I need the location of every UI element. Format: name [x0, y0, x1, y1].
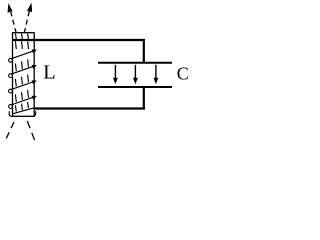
svg-text:C: C: [177, 63, 188, 83]
capacitor E-field arrow 1: [113, 65, 118, 84]
coil back-strand tick row 5: [15, 102, 28, 112]
coil winding last diagonal to bottom wire: [13, 108, 35, 114]
coil left-edge wire loop 4: [9, 105, 13, 109]
inductor L coil body (rectangle): [13, 33, 35, 117]
wire: right vertical upper segment: [143, 39, 145, 63]
coil left-edge wire loop 3: [9, 89, 13, 93]
coil winding diagonal turn 1 with arrow: [11, 50, 37, 59]
coil winding diagonal turn 4 with arrow: [11, 96, 37, 105]
capacitor C bottom plate: [98, 86, 172, 88]
capacitor E-field arrow 3: [154, 65, 159, 84]
top wire: [13, 39, 145, 41]
coil winding diagonal turn 2 with arrow: [11, 65, 37, 74]
coil back-strand tick row 4: [15, 90, 28, 102]
capacitor E-field arrow 2: [133, 65, 138, 84]
coil back-strand tick row 1: [15, 41, 28, 49]
bottom wire: [34, 107, 145, 109]
coil bottom edge corner hooks: [9, 111, 15, 116]
coil back-strand tick row 2: [15, 59, 28, 71]
coil back-strand tick row 0: [15, 34, 28, 39]
capacitor C top plate: [98, 62, 172, 64]
magnetic field line top-left (dashed, arrow up): [8, 3, 17, 33]
magnetic field line bottom-right (dashed): [27, 121, 35, 142]
svg-text:L: L: [43, 62, 56, 84]
coil left-edge wire loop 2: [9, 74, 13, 78]
coil winding diagonal turn 3 with arrow: [11, 80, 37, 89]
coil back-strand tick row 3: [15, 75, 28, 87]
wire: right vertical lower segment: [143, 87, 145, 110]
magnetic field line bottom-left (dashed): [5, 122, 14, 141]
coil left-edge wire loop 1: [9, 58, 13, 62]
magnetic field line top-right (dashed, arrow up): [24, 3, 32, 33]
LC oscillator circuit schematic: [0, 0, 188, 144]
